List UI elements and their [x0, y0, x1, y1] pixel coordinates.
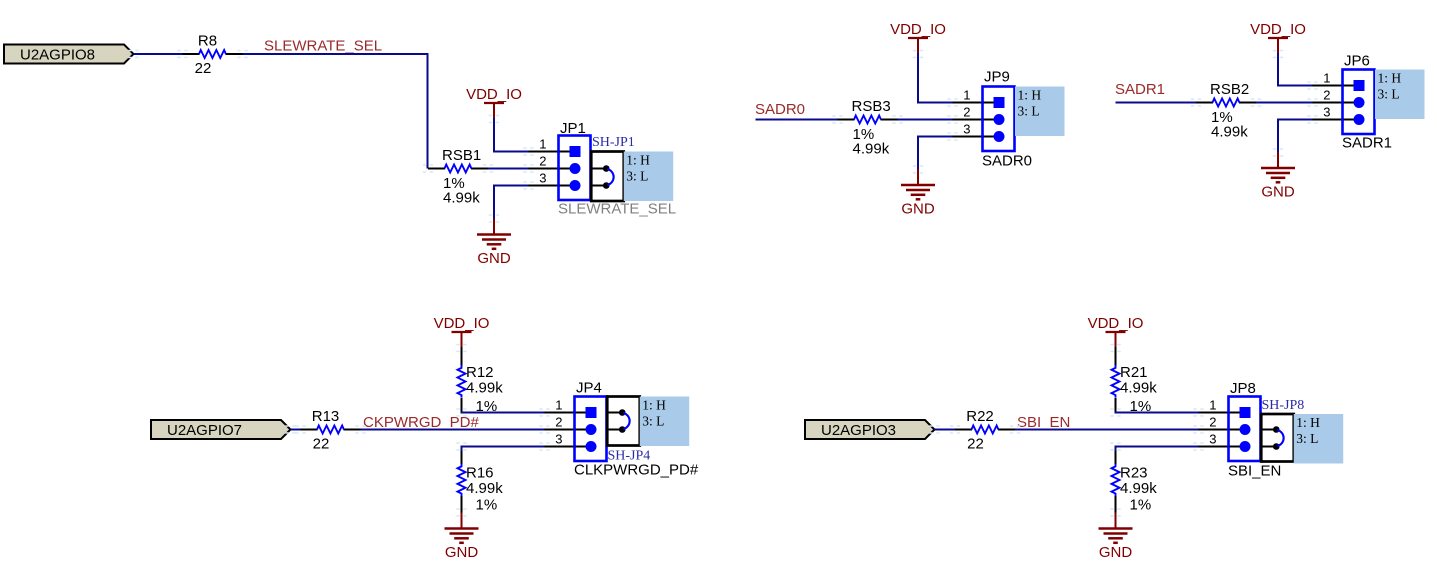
- ground GND (JP9): [901, 169, 935, 218]
- svg-text:1: 1: [555, 398, 562, 413]
- svg-text:SLEWRATE_SEL: SLEWRATE_SEL: [558, 201, 676, 218]
- wire VDD_IO to JP6 pin1: [1277, 85, 1323, 87]
- svg-text:1: 1: [1323, 71, 1330, 86]
- wire JP1 pin3 to GND: [493, 185, 540, 187]
- resistor R23 4.99k 1%: [1112, 464, 1158, 514]
- svg-text:R8: R8: [198, 33, 217, 50]
- svg-text:R16: R16: [466, 465, 494, 482]
- wire net SLEWRATE_SEL horizontal: [243, 53, 429, 55]
- wire VDD_IO down (JP9): [917, 53, 919, 104]
- ground GND (JP4): [445, 513, 479, 562]
- svg-text:3: 3: [555, 432, 562, 447]
- lead R23 down: [1115, 496, 1117, 514]
- svg-text:3: 3: [963, 122, 970, 137]
- connector JP6: [1313, 53, 1375, 135]
- connector JP1: [529, 120, 591, 200]
- svg-text:2: 2: [555, 415, 562, 430]
- wire SADR1 to RSB2: [1116, 102, 1197, 104]
- wire U2AGPIO3 to R22: [935, 429, 956, 431]
- svg-text:RSB1: RSB1: [442, 147, 481, 164]
- annotation box 1:H 3:L: [1015, 87, 1065, 137]
- svg-text:1%: 1%: [476, 497, 498, 514]
- port U2AGPIO3: [805, 420, 935, 439]
- svg-text:1: H: 1: H: [642, 398, 666, 413]
- lead R16 down: [461, 496, 463, 514]
- svg-text:GND: GND: [445, 544, 479, 561]
- svg-text:2: 2: [963, 105, 970, 120]
- svg-text:2: 2: [539, 154, 546, 169]
- annotation box 1:H 3:L: [1294, 414, 1344, 464]
- wire R21 to JP8 pin1: [1115, 412, 1210, 414]
- svg-text:U2AGPIO3: U2AGPIO3: [821, 422, 896, 439]
- svg-text:2: 2: [1209, 415, 1216, 430]
- wire VDD_IO down (JP6): [1277, 53, 1279, 87]
- svg-text:3: L: 3: L: [626, 169, 648, 184]
- annotation box 1:H 3:L: [1375, 70, 1425, 120]
- lead VDD_IO to R12: [461, 347, 463, 366]
- svg-text:4.99k: 4.99k: [466, 380, 503, 397]
- annotation box 1:H 3:L: [640, 397, 690, 447]
- svg-text:SBI_EN: SBI_EN: [1228, 463, 1281, 480]
- resistor R8 22: [183, 33, 243, 78]
- svg-text:U2AGPIO7: U2AGPIO7: [167, 422, 242, 439]
- wire net CKPWRGD_PD#: [361, 429, 556, 431]
- wire VDD_IO down: [493, 118, 495, 153]
- svg-text:3: L: 3: L: [1018, 104, 1040, 119]
- wire JP6 pin3 to GND: [1277, 119, 1323, 121]
- svg-text:GND: GND: [1261, 184, 1295, 201]
- svg-text:VDD_IO: VDD_IO: [1250, 21, 1306, 38]
- shunt jumper SH-JP8: [1261, 414, 1294, 462]
- svg-text:U2AGPIO8: U2AGPIO8: [20, 47, 95, 64]
- svg-text:SH-JP1: SH-JP1: [592, 135, 635, 150]
- wire VDD_IO to JP1 pin1: [493, 151, 540, 153]
- svg-text:SADR1: SADR1: [1342, 135, 1392, 152]
- svg-text:1: H: 1: H: [1018, 88, 1042, 103]
- svg-text:CKPWRGD_PD#: CKPWRGD_PD#: [363, 414, 480, 431]
- svg-text:JP6: JP6: [1344, 53, 1370, 70]
- lead to R23: [1115, 451, 1117, 464]
- connector JP9: [953, 69, 1015, 152]
- svg-text:3: L: 3: L: [1296, 431, 1318, 446]
- svg-text:R13: R13: [312, 408, 340, 425]
- lead R21 down: [1115, 398, 1117, 414]
- wire U2AGPIO8 to R8: [134, 53, 184, 55]
- svg-text:VDD_IO: VDD_IO: [434, 315, 490, 332]
- svg-text:SBI_EN: SBI_EN: [1017, 414, 1070, 431]
- svg-text:R21: R21: [1120, 364, 1148, 381]
- resistor R12 4.99k 1%: [458, 364, 504, 415]
- svg-text:4.99k: 4.99k: [853, 141, 890, 158]
- power port VDD_IO (JP8): [1088, 315, 1144, 348]
- resistor R22 22: [955, 408, 1015, 453]
- lead to R16: [461, 451, 463, 464]
- svg-text:SADR0: SADR0: [982, 153, 1032, 170]
- wire JP4 pin3 to R16: [461, 446, 556, 448]
- power port VDD_IO (JP6): [1250, 21, 1306, 54]
- svg-text:2: 2: [1323, 88, 1330, 103]
- port U2AGPIO7: [151, 420, 291, 439]
- svg-text:4.99k: 4.99k: [443, 190, 480, 207]
- svg-text:R22: R22: [966, 408, 994, 425]
- svg-text:3: 3: [1209, 432, 1216, 447]
- svg-text:3: 3: [1323, 105, 1330, 120]
- power port VDD_IO (JP9): [890, 21, 946, 54]
- lead VDD_IO to R21: [1115, 347, 1117, 366]
- svg-text:JP4: JP4: [576, 380, 602, 397]
- svg-text:CLKPWRGD_PD#: CLKPWRGD_PD#: [574, 462, 699, 479]
- svg-text:22: 22: [195, 60, 212, 77]
- svg-text:JP8: JP8: [1230, 380, 1256, 397]
- annotation box 1:H 3:L: [624, 152, 674, 202]
- resistor R16 4.99k 1%: [458, 464, 504, 514]
- svg-text:1: 1: [963, 88, 970, 103]
- svg-text:SH-JP8: SH-JP8: [1262, 398, 1305, 413]
- ground GND (JP6): [1261, 152, 1295, 201]
- svg-text:22: 22: [313, 436, 330, 453]
- resistor RSB2 4.99k 1%: [1196, 81, 1256, 141]
- power port VDD_IO (JP4): [434, 315, 490, 348]
- svg-text:RSB2: RSB2: [1210, 81, 1249, 98]
- svg-text:VDD_IO: VDD_IO: [466, 86, 522, 103]
- shunt jumper SH-JP1: [591, 152, 624, 202]
- wire JP9 pin3 to GND: [917, 136, 963, 138]
- port U2AGPIO8: [4, 45, 134, 64]
- svg-text:R12: R12: [466, 364, 494, 381]
- svg-text:RSB3: RSB3: [852, 98, 891, 115]
- ground GND (JP8): [1099, 513, 1133, 562]
- svg-text:4.99k: 4.99k: [1211, 124, 1248, 141]
- svg-text:GND: GND: [901, 201, 935, 218]
- svg-text:1: H: 1: H: [626, 153, 650, 168]
- resistor RSB3 4.99k 1%: [838, 98, 898, 158]
- wire net SBI_EN: [1015, 429, 1209, 431]
- svg-text:4.99k: 4.99k: [1120, 480, 1157, 497]
- svg-text:22: 22: [967, 436, 984, 453]
- svg-text:SLEWRATE_SEL: SLEWRATE_SEL: [264, 38, 382, 55]
- connector JP4: [545, 380, 607, 462]
- svg-text:SADR1: SADR1: [1115, 81, 1165, 98]
- svg-text:1%: 1%: [1130, 497, 1152, 514]
- resistor R21 4.99k 1%: [1112, 364, 1158, 415]
- wire RSB3 to JP9 pin2: [898, 119, 964, 121]
- svg-text:VDD_IO: VDD_IO: [1088, 315, 1144, 332]
- wire VDD_IO to JP9 pin1: [917, 102, 963, 104]
- wire SADR0 to RSB3: [756, 119, 838, 121]
- hotspot marks: [128, 50, 138, 58]
- svg-text:4.99k: 4.99k: [1120, 380, 1157, 397]
- ground GND (JP1): [477, 219, 511, 268]
- svg-text:4.99k: 4.99k: [466, 480, 503, 497]
- svg-text:3: L: 3: L: [642, 414, 664, 429]
- resistor R13 22: [301, 408, 361, 453]
- wire R12 to JP4 pin1: [461, 412, 556, 414]
- svg-text:VDD_IO: VDD_IO: [890, 21, 946, 38]
- wire RSB1 to JP1 pin2: [488, 168, 540, 170]
- svg-text:JP1: JP1: [560, 120, 586, 137]
- svg-text:GND: GND: [1099, 544, 1133, 561]
- svg-text:1: H: 1: H: [1296, 415, 1320, 430]
- svg-text:R23: R23: [1120, 465, 1148, 482]
- svg-text:3: 3: [539, 171, 546, 186]
- svg-text:JP9: JP9: [984, 69, 1010, 86]
- wire JP8 pin3 to R23: [1115, 446, 1210, 448]
- svg-text:1: 1: [539, 137, 546, 152]
- svg-text:3: L: 3: L: [1378, 87, 1400, 102]
- svg-text:1: H: 1: H: [1378, 71, 1402, 86]
- resistor RSB1 4.99k 1%: [428, 147, 488, 207]
- wire U2AGPIO7 to R13: [291, 429, 301, 431]
- wire RSB2 to JP6 pin2: [1256, 102, 1323, 104]
- svg-text:GND: GND: [477, 250, 511, 267]
- shunt jumper SH-JP4: [607, 397, 640, 446]
- svg-text:SADR0: SADR0: [755, 101, 805, 118]
- lead R12 down: [461, 398, 463, 414]
- power port VDD_IO (JP1): [466, 86, 522, 119]
- connector JP8: [1199, 380, 1261, 461]
- wire SLEWRATE_SEL vertical: [427, 53, 429, 169]
- svg-text:1: 1: [1209, 398, 1216, 413]
